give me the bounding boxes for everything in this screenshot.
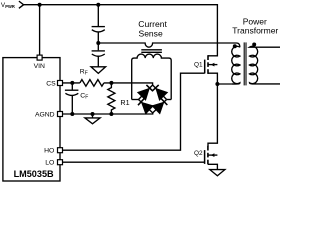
junction RF/R1 [109,81,113,85]
label Q2 [194,150,203,157]
wire switch node to transformer [217,83,236,85]
junction R1 bottom [109,112,113,116]
wire CS pin to RF [63,82,80,84]
wire HO to Q1 gate [63,73,205,150]
svg-text:CF: CF [80,93,88,101]
transformer core [244,42,246,85]
capacitor C2 lower half-bridge cap [97,43,99,50]
transistor Q1 [205,55,218,84]
bridge rectifier diamond [138,85,168,114]
pin CS [58,81,63,86]
svg-text:AGND: AGND [35,111,55,118]
pin HO [58,148,63,153]
svg-text:CS: CS [46,80,56,87]
wire switch node down to Q2 drain [208,84,217,146]
transformer secondary winding [250,46,281,84]
svg-text:R1: R1 [120,98,129,107]
svg-text:Transformer: Transformer [232,25,278,35]
diode D2 right-to-top [152,85,167,100]
label Power Transformer [232,17,278,36]
wire right vertex lead [167,99,172,101]
svg-text:Q2: Q2 [194,150,203,157]
transformer primary winding [232,46,240,84]
label Q1 [194,62,203,69]
junction cap midpoint [96,41,100,45]
pin AGND [58,112,63,117]
wire AGND rail [63,113,153,114]
phasing dot secondary [252,43,256,47]
label R1 [120,98,129,107]
phasing dot primary [233,44,237,48]
wire LO to Q2 gate [63,161,205,163]
svg-text:PWR: PWR [5,4,15,10]
junction ground stub [91,112,95,116]
junction switch node [215,82,219,86]
svg-text:VIN: VIN [34,63,45,70]
junction CF bottom [70,112,74,116]
resistor RF [80,80,104,87]
pin LO [58,160,63,165]
svg-text:LO: LO [45,160,54,167]
wire bridge bottom to AGND rail [152,113,154,114]
svg-text:RF: RF [80,69,88,77]
pin VIN [37,55,42,60]
diode D3 bottom-to-left [138,99,153,114]
wire top rail VPWR to Q1 drain [24,5,218,56]
svg-text:HO: HO [44,148,54,155]
CS transformer secondary and bridge loop [132,54,172,99]
svg-text:Sense: Sense [139,28,163,38]
CS transformer core [141,49,162,51]
label RF [80,69,88,77]
ground on AGND rail [92,114,94,118]
capacitor C1 upper half-bridge cap [97,5,99,26]
label Current Sense [138,19,167,38]
node VPWR label [1,2,15,10]
wire VPWR down to VIN pin [39,5,41,55]
ground below C2 [91,67,106,74]
svg-text:LM5035B: LM5035B [14,168,54,179]
svg-text:Q1: Q1 [194,62,203,69]
IC LM5035B box [3,58,60,181]
wire left vertex lead [132,99,139,101]
capacitor CF [71,83,73,90]
transistor Q2 [205,146,218,170]
junction CS/CF/RF [70,81,74,85]
resistor R1 [108,83,115,114]
wire primary: cap midpoint through CS primary to power transformer [98,43,240,47]
label CF [80,93,88,101]
diode D4 bottom-to-right [152,99,167,114]
input terminal arrow VPWR [19,1,24,8]
junction VPWR/C1 [96,3,100,7]
junction VPWR/VIN [38,3,42,7]
diode D1 left-to-top [138,85,153,100]
wire RF to R1 node and bridge top vertex [104,83,153,85]
ground below Q2 [210,170,225,176]
